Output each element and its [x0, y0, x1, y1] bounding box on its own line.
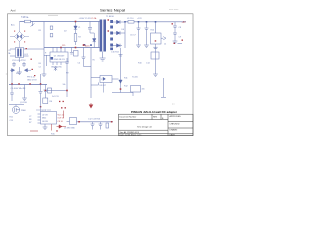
- svg-text:C5 2A: C5 2A: [91, 17, 97, 20]
- svg-text:Series Nepal: Series Nepal: [100, 8, 125, 12]
- svg-text:+12V: +12V: [137, 18, 142, 20]
- ground bottom of column: [153, 74, 158, 76]
- red mark inside CON1: [155, 40, 157, 41]
- connector CON1 box: [151, 33, 162, 44]
- opto U3: [91, 76, 119, 86]
- bulk rail y=84.5: [9, 84, 47, 86]
- svg-text:OUT 11: OUT 11: [58, 118, 64, 120]
- transformer T1 core bar: [103, 20, 106, 52]
- svg-text:10k: 10k: [63, 84, 66, 86]
- adj box bottom: [70, 118, 77, 125]
- wire from rail to U2: [40, 100, 42, 112]
- svg-text:Z1: Z1: [78, 27, 80, 29]
- svg-text:C16 R12: C16 R12: [111, 52, 120, 54]
- cap C13: [99, 122, 103, 130]
- junction on rail: [155, 21, 157, 23]
- spark gap arrows: [10, 69, 31, 72]
- IC U2: [38, 112, 57, 125]
- wire: y=66.5 link: [84, 66, 92, 68]
- title block outer box: [119, 114, 194, 135]
- ground x=24.5: [22, 98, 27, 100]
- svg-text:6842: 6842: [42, 118, 46, 120]
- right return vertical x=163.5: [161, 78, 166, 98]
- wire: below CON1: [155, 44, 157, 74]
- svg-text:C6 C7: C6 C7: [130, 35, 137, 37]
- primary left lead: [98, 22, 100, 48]
- svg-text:TL431: TL431: [132, 77, 139, 79]
- title block column divider: [167, 114, 169, 135]
- wire y=90.5 startup: [45, 90, 67, 92]
- red marks on bulk rail: [11, 83, 13, 84]
- cap C2: [39, 85, 43, 101]
- svg-text:Q1 R10: Q1 R10: [20, 102, 28, 104]
- rectifier diode D6: [113, 31, 125, 35]
- snubber diode D3: [93, 33, 97, 48]
- svg-text:R5: R5: [93, 60, 95, 62]
- svg-text:Aml: Aml: [11, 9, 16, 13]
- U1 pin1 dark marker: [51, 57, 54, 60]
- adj box left pin: [67, 120, 70, 122]
- red mark left: [45, 90, 46, 91]
- svg-text:PINGAN JIALILAI wall DC adapt: PINGAN JIALILAI wall DC adapter: [131, 111, 177, 114]
- transformer red polarity dot top: [108, 19, 110, 20]
- rectifier diode D7: [113, 44, 122, 48]
- svg-text:x x: x x: [172, 104, 175, 106]
- output cap C6: [137, 22, 141, 45]
- red ground arrow bottom of x=91: [89, 103, 93, 108]
- red junction on rail at x=83.5: [83, 44, 85, 46]
- ground x=175: [173, 41, 178, 43]
- svg-text:CX1 0.1u 275V: CX1 0.1u 275V: [12, 60, 26, 62]
- svg-text:U1 OB2269: U1 OB2269: [54, 56, 65, 58]
- box2 on column: [151, 52, 159, 59]
- bulk cap C1: [10, 85, 14, 102]
- net arrow at CON1 right: [161, 37, 166, 40]
- red dot: [182, 40, 184, 41]
- wire y=92.5: [112, 92, 133, 94]
- red junction on column: [120, 88, 122, 90]
- svg-text:VCC 12: VCC 12: [58, 114, 65, 116]
- svg-text:U3 817: U3 817: [100, 85, 107, 87]
- red dots near D4: [59, 101, 60, 102]
- svg-text:L2 C10: L2 C10: [127, 18, 134, 20]
- title block right rows: [168, 122, 193, 134]
- startup comp box: [48, 88, 52, 93]
- transformer secondary winding bumps: [110, 20, 113, 50]
- red junction x=67: [66, 90, 68, 92]
- dark junction at x=91 rail: [90, 44, 92, 46]
- svg-text:U2 CR: U2 CR: [42, 114, 48, 116]
- label LF1 red: [26, 48, 27, 49]
- red junction bottom rail: [111, 121, 113, 123]
- resistor R16: [106, 123, 109, 128]
- transformer T1 primary bar: [100, 20, 103, 52]
- red junction at x=75.5: [75, 21, 77, 23]
- Y-cap CY2: [22, 62, 26, 67]
- second cap column x=72: [70, 48, 73, 55]
- svg-text:DRAWN:: DRAWN:: [170, 129, 178, 132]
- svg-text:GD FB: GD FB: [42, 121, 49, 123]
- wire: secondary bus x=125: [124, 22, 126, 48]
- red marks above U2 area: [61, 107, 63, 108]
- svg-text:R7: R7: [29, 122, 31, 124]
- red stub below U2: [51, 124, 53, 131]
- stub below TL431: [132, 92, 134, 96]
- svg-text:Document Number: Document Number: [120, 116, 137, 119]
- title block left rows: [119, 120, 169, 134]
- svg-text:GND FB CS: GND FB CS: [54, 59, 66, 61]
- sheet background: [0, 0, 200, 147]
- ground under transformer: [102, 52, 104, 59]
- wire: rail into CON1: [155, 22, 157, 33]
- svg-text:Date: Jul 04 Sheet 1 of 1: Date: Jul 04 Sheet 1 of 1: [120, 133, 143, 136]
- cap column x=83.5: [82, 48, 86, 67]
- bridge rectifier BD1: [10, 22, 29, 48]
- svg-text:+310V C5 R3: +310V C5 R3: [79, 18, 92, 20]
- output cap C7: [145, 22, 149, 45]
- red vertical left of adj box: [63, 111, 65, 119]
- wire: drop x=40.5: [40, 74, 42, 85]
- svg-text:Time Design Ltd: Time Design Ltd: [137, 126, 152, 129]
- svg-text:R4: R4: [39, 63, 41, 65]
- svg-text:C2: C2: [39, 67, 41, 69]
- wire: primary return vertical x=91: [90, 48, 92, 99]
- wire: left vertical drop x=44: [43, 22, 45, 75]
- svg-text:R3: R3: [78, 37, 80, 39]
- common-mode choke LF1: [10, 48, 44, 63]
- MOSFET Q1: [12, 105, 19, 114]
- electrolytic C2b column x=45.5: [43, 85, 48, 104]
- cap column x=67: [65, 58, 69, 97]
- svg-text:+5V: +5V: [182, 22, 187, 24]
- zone tick left: [6, 73, 8, 75]
- ground at bottom of x=44 line: [42, 74, 47, 76]
- TL431 box: [131, 86, 141, 93]
- dark junction blob: [83, 44, 85, 46]
- fuse F1: [25, 20, 31, 23]
- border frame: [8, 14, 194, 136]
- wire: output rail: [125, 21, 186, 23]
- snubber link wire: [90, 32, 94, 34]
- wire: primary power rail y=47.5: [44, 47, 100, 49]
- junction dots on output rail: [124, 21, 126, 23]
- wire: stub to U1 pin: [44, 55, 50, 57]
- wire: neutral drop x=12: [11, 70, 13, 84]
- svg-text:GND 275V: GND 275V: [27, 80, 37, 82]
- vertical x=24.5 below rail: [24, 85, 26, 99]
- svg-text:APPROVED:: APPROVED:: [170, 115, 182, 118]
- transistor X mark under U1: [54, 66, 57, 71]
- wire y=104.5 lower-left: [9, 104, 24, 106]
- svg-text:CS 10: CS 10: [58, 121, 63, 123]
- red marks bottom-left: [30, 130, 38, 132]
- left small column x=46.5: [46, 55, 48, 66]
- snubber cap C3: [88, 22, 92, 34]
- cap C12: [91, 122, 95, 130]
- diode D2 column x=75.5: [74, 22, 77, 46]
- svg-text:REV: REV: [153, 117, 158, 119]
- svg-text:431: 431: [142, 89, 145, 91]
- secondary sense column x=120.5: [119, 48, 123, 93]
- svg-text:PRI 0.1u: PRI 0.1u: [27, 77, 35, 79]
- bottom rail y=121.8: [77, 121, 114, 123]
- svg-text:C1 400V 68u R8: C1 400V 68u R8: [11, 88, 27, 90]
- title block row1 sub dividers: [152, 114, 161, 119]
- svg-text:C12 C13 R16: C12 C13 R16: [88, 118, 101, 120]
- resistor R2 stack: [50, 26, 53, 37]
- svg-text:T1 EE16: T1 EE16: [106, 16, 115, 18]
- svg-text:D4 C11: D4 C11: [52, 96, 60, 98]
- red diode right of U2: [57, 125, 67, 128]
- svg-text:F1 2A: F1 2A: [23, 16, 29, 19]
- comp box right of U1: [74, 51, 79, 57]
- transformer red polarity dot mid: [108, 30, 110, 31]
- bridge polarity marks: [14, 31, 25, 43]
- ground below U2: [44, 124, 46, 127]
- svg-text:DATE:: DATE:: [170, 133, 176, 136]
- inductor L2: [128, 21, 134, 24]
- zone tick top: [48, 14, 58, 16]
- red junction dots on rail: [60, 47, 62, 49]
- Y-cap CY1: [12, 62, 16, 67]
- thermistor RT1: [31, 22, 35, 27]
- red mark right of arrows: [32, 69, 33, 70]
- svg-text:CHECKED:: CHECKED:: [170, 123, 181, 125]
- cap bars below CON1: [153, 47, 157, 49]
- svg-text:2: 2: [101, 79, 102, 81]
- svg-text:xxxx xxxx: xxxx xxxx: [169, 9, 179, 11]
- controller IC U1: [50, 48, 68, 66]
- output filter column x=175: [173, 22, 177, 41]
- rectifier diode D5: [113, 20, 125, 24]
- title block texts: [120, 115, 182, 136]
- svg-text:L3 3W GND: L3 3W GND: [64, 127, 75, 129]
- PE ground blob: [19, 67, 21, 72]
- red + mark: [172, 23, 174, 24]
- wire: AC top rail: [20, 21, 100, 23]
